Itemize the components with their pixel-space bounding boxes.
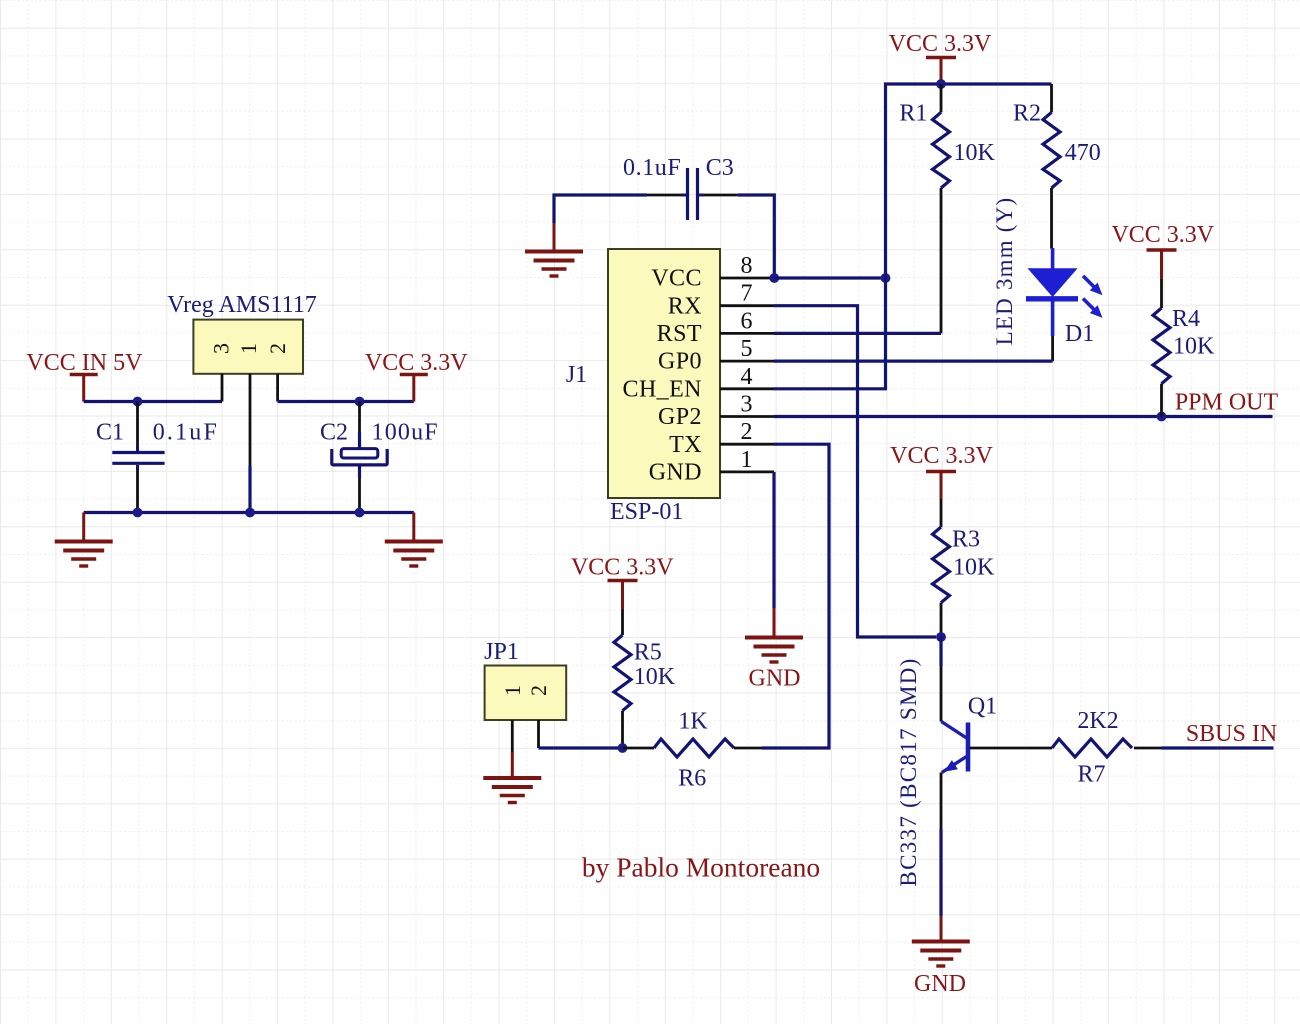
svg-text:GP2: GP2	[658, 404, 702, 430]
JP1 pin 2	[526, 685, 551, 748]
junction VCC pin8	[769, 273, 779, 283]
connector JP1 body	[484, 639, 566, 720]
svg-text:LED 3mm (Y): LED 3mm (Y)	[992, 197, 1017, 346]
pin 6 RST	[657, 308, 774, 347]
wire GP2 to PPM OUT	[774, 415, 1273, 418]
JP1 pin 1	[500, 685, 525, 752]
pin 1 GND	[649, 447, 774, 486]
svg-text:VCC IN 5V: VCC IN 5V	[26, 350, 143, 376]
svg-text:8: 8	[741, 253, 753, 279]
svg-text:0.1uF: 0.1uF	[153, 420, 219, 446]
ground JP1	[483, 752, 541, 803]
pin 4 CH_EN	[623, 364, 774, 403]
power flag VCC IN 5V	[26, 350, 143, 402]
wire RX to collector junction	[774, 306, 936, 637]
svg-text:10K: 10K	[954, 140, 996, 166]
LED D1 (LED 3mm Y)	[992, 197, 1103, 361]
resistor R7 2K2	[1052, 708, 1162, 788]
junction R4 bottom	[1157, 412, 1167, 422]
ground Q1 (GND)	[912, 916, 970, 997]
svg-text:VCC 3.3V: VCC 3.3V	[890, 443, 993, 469]
capacitor C2 100uF (polarized)	[320, 402, 439, 513]
wire C3 right to VCC pin	[738, 195, 775, 278]
wire VCC pin8 to pullup rail	[774, 276, 885, 279]
svg-text:C3: C3	[706, 155, 734, 181]
wire SBUS IN	[1162, 746, 1274, 749]
resistor R5 10K	[614, 609, 676, 748]
power flag VCC 3.3V (R4)	[1111, 222, 1214, 278]
ground C3	[525, 223, 583, 276]
svg-text:CH_EN: CH_EN	[623, 376, 702, 402]
svg-text:R7: R7	[1077, 762, 1105, 788]
svg-text:10K: 10K	[1173, 334, 1215, 360]
svg-text:GND: GND	[749, 666, 801, 692]
svg-text:4: 4	[741, 364, 753, 390]
svg-text:VCC 3.3V: VCC 3.3V	[571, 555, 674, 581]
pin 8 VCC	[651, 253, 774, 292]
wire GP0 to LED	[774, 360, 1053, 363]
svg-text:R3: R3	[952, 527, 980, 553]
svg-text:J1: J1	[566, 362, 587, 388]
svg-text:2: 2	[741, 419, 753, 445]
wire GND pin to ground	[772, 472, 775, 608]
wire input 5V rail	[84, 400, 222, 403]
svg-text:1: 1	[500, 685, 525, 696]
voltage regulator Vreg AMS1117 body	[167, 292, 316, 374]
junction collector node	[936, 632, 946, 642]
Vreg pin 1	[236, 343, 261, 513]
Vreg pin 2	[265, 343, 290, 402]
pin 7 RX	[668, 281, 774, 320]
wire collector	[939, 637, 942, 722]
junction C2 top	[355, 397, 365, 407]
resistor R1 10K	[899, 84, 995, 333]
wire JP1 to R5 junction	[539, 746, 623, 749]
ground right	[385, 513, 443, 567]
svg-text:RX: RX	[668, 293, 702, 319]
svg-text:3: 3	[208, 343, 233, 354]
wire C3 left to ground	[554, 195, 647, 223]
svg-text:D1: D1	[1065, 321, 1094, 347]
wire emitter to ground	[940, 773, 943, 917]
capacitor C1 0.1uF	[96, 402, 219, 513]
svg-text:10K: 10K	[953, 555, 995, 581]
svg-text:JP1: JP1	[484, 639, 519, 665]
wire TX down to R6	[762, 444, 829, 748]
svg-text:Q1: Q1	[968, 694, 997, 720]
svg-text:VCC 3.3V: VCC 3.3V	[889, 31, 992, 57]
svg-text:SBUS IN: SBUS IN	[1186, 721, 1277, 747]
svg-text:PPM OUT: PPM OUT	[1175, 390, 1279, 416]
resistor R2 470	[1013, 84, 1101, 249]
junction C1 top	[133, 397, 143, 407]
svg-text:ESP-01: ESP-01	[610, 499, 683, 525]
svg-text:0.1uF: 0.1uF	[623, 155, 681, 181]
svg-text:Vreg AMS1117: Vreg AMS1117	[167, 292, 316, 318]
svg-text:5: 5	[741, 336, 753, 362]
wire output 3.3V rail	[278, 400, 414, 403]
ground left	[55, 513, 113, 567]
transistor Q1 BC337	[896, 657, 1052, 886]
wire ground rail	[84, 511, 414, 514]
svg-text:3: 3	[741, 392, 753, 418]
svg-text:TX: TX	[669, 432, 702, 458]
svg-text:C1: C1	[96, 420, 124, 446]
resistor R6 1K	[623, 709, 763, 792]
svg-text:GND: GND	[914, 971, 966, 997]
junction gnd C2	[355, 508, 365, 518]
junction R5 bottom	[618, 743, 628, 753]
svg-text:100uF: 100uF	[372, 420, 439, 446]
ground ESP (GND)	[745, 608, 803, 692]
svg-text:1K: 1K	[678, 709, 708, 735]
svg-text:VCC 3.3V: VCC 3.3V	[1111, 222, 1214, 248]
pin 2 TX	[669, 419, 774, 458]
net label SBUS IN	[1186, 721, 1277, 747]
svg-text:2K2: 2K2	[1077, 708, 1118, 734]
svg-text:470: 470	[1065, 140, 1101, 166]
svg-text:VCC: VCC	[651, 266, 702, 292]
text credit	[582, 852, 820, 883]
resistor R3 10K	[933, 499, 996, 637]
svg-text:R1: R1	[899, 101, 927, 127]
junction gnd pin1	[245, 508, 255, 518]
svg-text:7: 7	[741, 281, 753, 307]
svg-text:R2: R2	[1013, 101, 1041, 127]
junction VCC top rail	[936, 79, 946, 89]
pin 5 GP0	[658, 336, 774, 375]
svg-text:R6: R6	[678, 766, 706, 792]
svg-text:BC337 (BC817 SMD): BC337 (BC817 SMD)	[896, 657, 921, 886]
connector J1 ESP-01 body	[566, 249, 720, 525]
pin 3 GP2	[658, 392, 774, 431]
svg-text:VCC 3.3V: VCC 3.3V	[365, 350, 468, 376]
svg-text:C2: C2	[320, 420, 348, 446]
svg-text:10K: 10K	[634, 664, 676, 690]
svg-text:2: 2	[265, 343, 290, 354]
power flag VCC 3.3V (R5)	[571, 555, 674, 610]
svg-text:GND: GND	[649, 460, 702, 486]
svg-text:GP0: GP0	[658, 349, 702, 375]
capacitor C3 0.1uF	[623, 155, 738, 220]
Vreg pin 3	[208, 343, 233, 402]
net label PPM OUT	[1175, 390, 1279, 416]
svg-text:2: 2	[526, 685, 551, 696]
power flag VCC 3.3V (top)	[889, 31, 992, 80]
svg-text:1: 1	[236, 343, 261, 354]
power flag VCC 3.3V (regulator output)	[365, 350, 468, 402]
svg-text:1: 1	[741, 447, 753, 473]
power flag VCC 3.3V (R3)	[890, 443, 993, 499]
wire CH_EN to VCC rail	[774, 84, 1052, 389]
junction gnd C1	[133, 508, 143, 518]
svg-text:R5: R5	[634, 640, 662, 666]
resistor R4 10K	[1153, 278, 1215, 416]
svg-text:by Pablo Montoreano: by Pablo Montoreano	[582, 852, 820, 883]
junction VCC vertical	[881, 273, 891, 283]
wire RST pullup	[774, 332, 941, 335]
svg-text:6: 6	[741, 308, 753, 334]
svg-text:R4: R4	[1172, 306, 1200, 332]
svg-text:RST: RST	[657, 321, 702, 347]
